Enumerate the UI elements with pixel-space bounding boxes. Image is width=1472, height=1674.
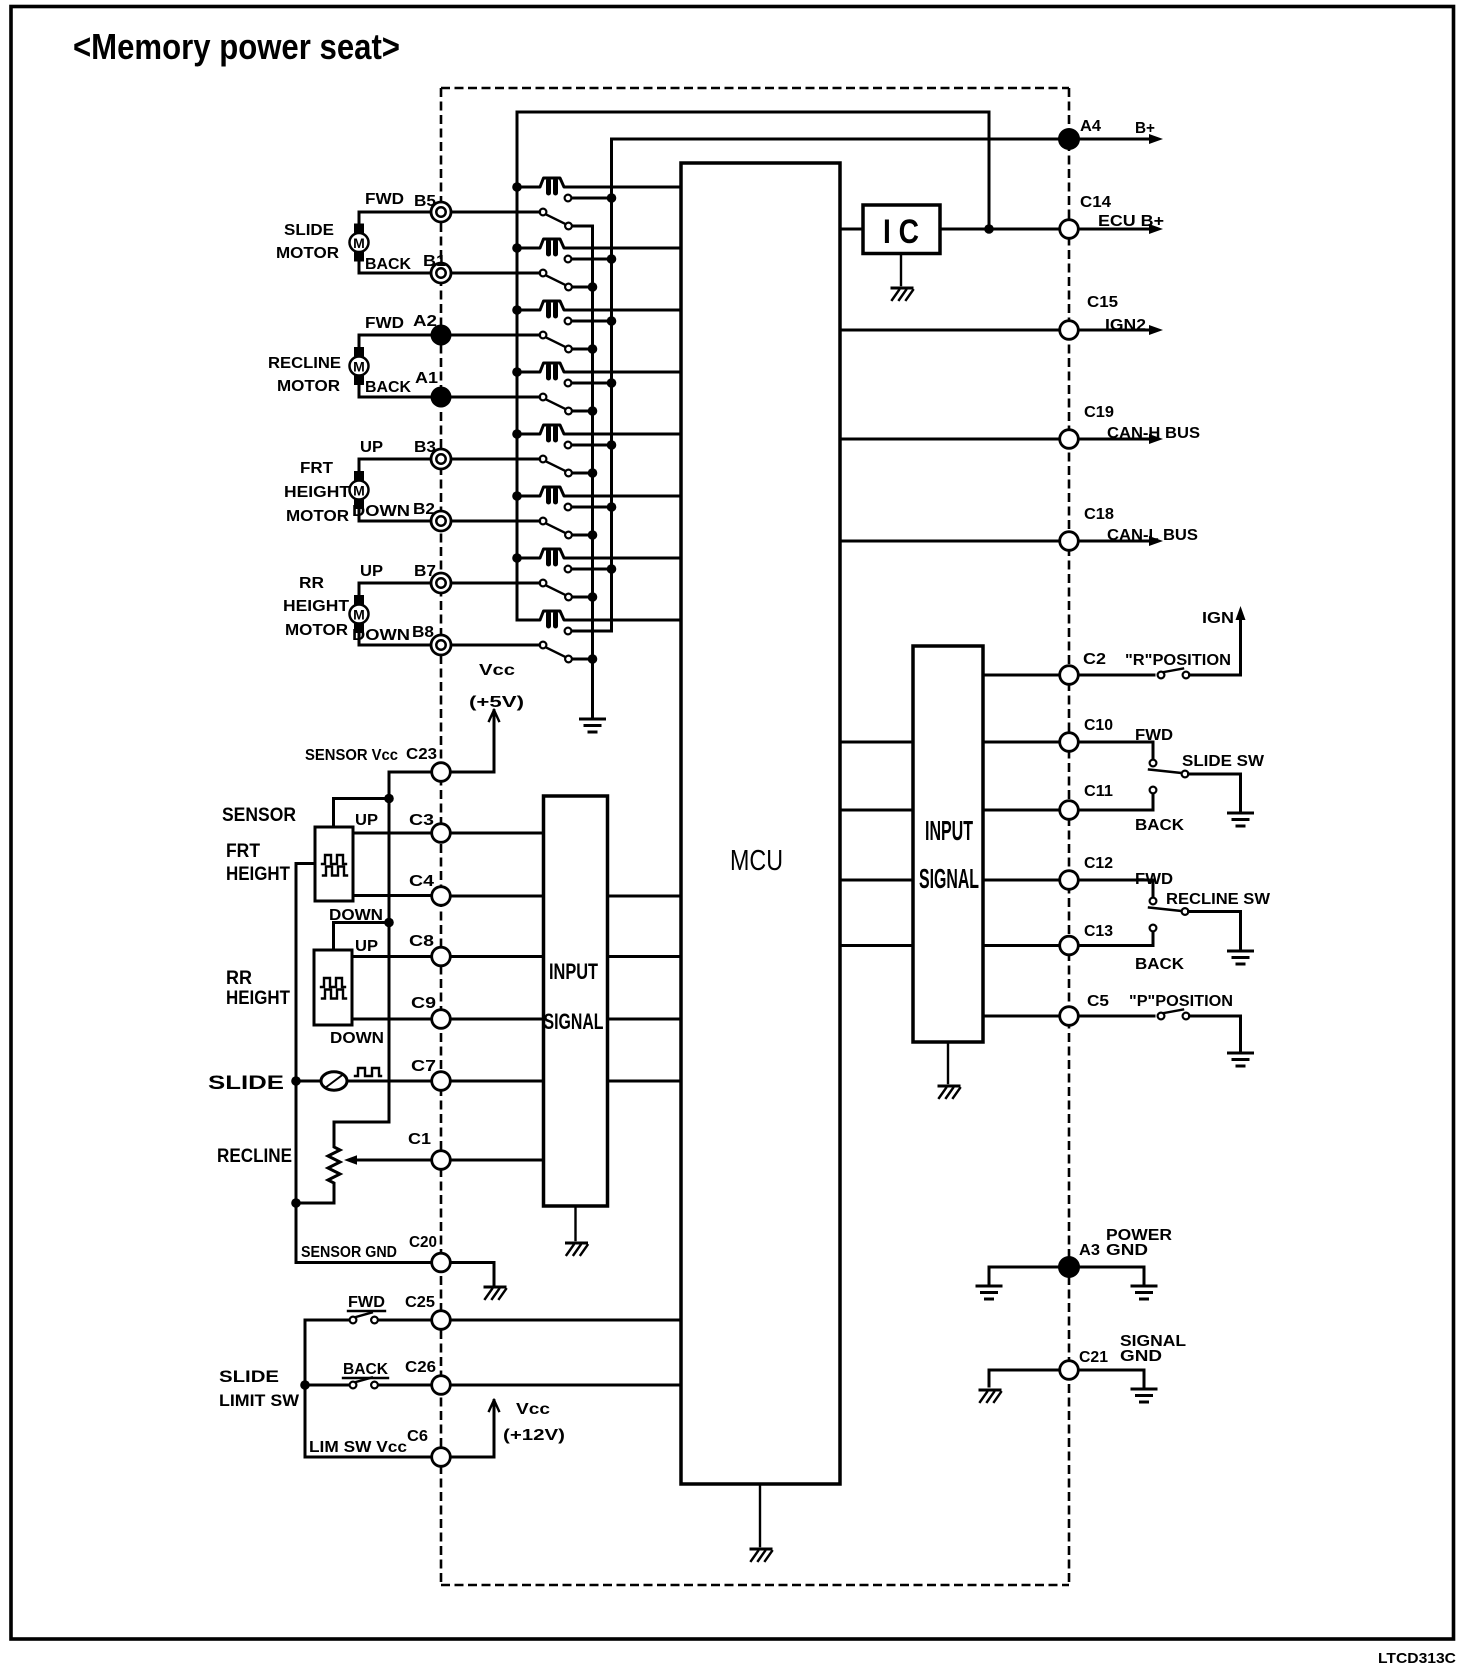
wire R-position to IGN: [1190, 614, 1241, 675]
wire sensor gnd to C20: [296, 1261, 431, 1264]
pin C15 IGN2: [1060, 321, 1079, 340]
relay RY8 coil: [517, 611, 681, 626]
wire A2 pin to relay3 pole: [452, 334, 540, 337]
svg-text:BACK: BACK: [1135, 956, 1185, 973]
svg-text:DOWN: DOWN: [329, 907, 383, 924]
svg-text:C8: C8: [409, 933, 434, 950]
svg-text:B1: B1: [423, 253, 446, 270]
right INPUT SIGNAL block: [913, 646, 983, 1042]
wire sensor ground rail: [295, 864, 298, 1263]
svg-text:BACK: BACK: [365, 256, 412, 273]
pin C11 slide BACK: [1060, 801, 1079, 820]
pin C26: [432, 1376, 451, 1395]
FRT HEIGHT sensor: [315, 827, 353, 901]
pin C14 ECU B+: [1060, 220, 1079, 239]
wire B+ line: [612, 138, 1152, 141]
svg-text:HEIGHT: HEIGHT: [283, 598, 350, 615]
svg-text:INPUT: INPUT: [925, 815, 973, 846]
ground (P-position): [1229, 1053, 1253, 1066]
svg-text:B7: B7: [414, 563, 436, 580]
pin C10 slide FWD: [1060, 733, 1079, 752]
node Vcc branch to RR sensor: [384, 918, 394, 928]
ground (right input block): [939, 1086, 960, 1098]
svg-text:CAN-L BUS: CAN-L BUS: [1107, 527, 1198, 544]
slide limit switch FWD: [305, 1319, 350, 1322]
wire slide sw to ground: [1189, 774, 1241, 811]
svg-text:C26: C26: [405, 1359, 436, 1376]
recline potentiometer: [296, 1122, 389, 1203]
relay RY1 coil: [517, 178, 681, 193]
node slide sensor junction: [291, 1076, 301, 1086]
wire relay coil supply bus: [516, 112, 519, 620]
svg-text:C13: C13: [1084, 923, 1113, 940]
pin C8: [432, 947, 451, 966]
relay RY6 contact: [571, 506, 607, 509]
svg-text:<Memory power seat>: <Memory power seat>: [73, 26, 400, 67]
svg-text:RR: RR: [226, 968, 252, 989]
wire C3 to input block: [451, 832, 544, 835]
svg-text:SIGNAL: SIGNAL: [919, 863, 979, 894]
relay RY4 contact: [571, 382, 607, 385]
wire slide sensor to C7: [347, 1080, 431, 1083]
wire input block out row C8 to MCU: [608, 955, 682, 958]
R-position switch: [1079, 674, 1154, 677]
svg-text:C20: C20: [409, 1234, 437, 1251]
svg-text:C18: C18: [1084, 506, 1114, 523]
svg-text:(+12V): (+12V): [503, 1427, 565, 1444]
svg-text:A1: A1: [415, 370, 438, 387]
pin C1: [432, 1151, 451, 1170]
slide switch SW1: [1150, 760, 1157, 767]
wire C23 to Vcc arrow: [451, 711, 494, 772]
relay RY7 coil: [517, 549, 681, 564]
pin C2 R-position: [1060, 666, 1079, 685]
pin C25: [432, 1311, 451, 1330]
arrow B+: [1149, 134, 1163, 144]
ground (C20): [485, 1287, 506, 1299]
wire P-position to ground: [1190, 1016, 1241, 1051]
wire Vcc to RR sensor: [334, 923, 390, 951]
relay RY3 coil: [517, 301, 681, 316]
RR HEIGHT sensor: [314, 950, 352, 1025]
wire C12 to recline sw throw: [1079, 880, 1153, 898]
wire rr height motor UP lead: [359, 583, 431, 596]
svg-text:C1: C1: [408, 1131, 431, 1148]
ground (C21 left): [980, 1390, 1001, 1402]
svg-text:C9: C9: [411, 995, 436, 1012]
svg-text:C7: C7: [411, 1058, 436, 1075]
wire slide motor BACK lead: [359, 261, 431, 273]
svg-text:LIMIT SW: LIMIT SW: [219, 1391, 300, 1410]
svg-text:C23: C23: [406, 746, 437, 763]
wire IC ground stem: [900, 254, 902, 286]
svg-text:Vcc: Vcc: [516, 1401, 550, 1418]
svg-text:"R"POSITION: "R"POSITION: [1125, 652, 1231, 669]
svg-text:MCU: MCU: [730, 845, 783, 877]
pin C4: [432, 887, 451, 906]
pot wiper arrow to C1: [352, 1159, 431, 1162]
P-position switch: [1079, 1015, 1154, 1018]
svg-text:SLIDE SW: SLIDE SW: [1182, 753, 1264, 770]
wire C13 to recline sw throw: [1079, 932, 1153, 946]
wire input block to C13: [983, 944, 1060, 947]
wire MCU to C15: [840, 329, 1060, 332]
relay RY3 contact: [571, 320, 607, 323]
svg-text:FRT: FRT: [226, 841, 260, 862]
pin C9: [432, 1010, 451, 1029]
svg-text:SENSOR Vcc: SENSOR Vcc: [305, 747, 398, 764]
wire C1 to input block: [451, 1159, 544, 1162]
pin B3: [431, 449, 451, 469]
wire RR sensor UP to C8: [352, 955, 431, 958]
svg-text:FWD: FWD: [348, 1294, 385, 1311]
ECU dashed boundary box: [441, 88, 1069, 1585]
svg-text:HEIGHT: HEIGHT: [226, 988, 290, 1009]
wire C8 to input block: [451, 955, 544, 958]
svg-text:C10: C10: [1084, 717, 1113, 734]
svg-text:LIM SW Vcc: LIM SW Vcc: [309, 1439, 407, 1456]
node A3 POWER GND: [1058, 1256, 1080, 1278]
svg-text:MOTOR: MOTOR: [285, 622, 348, 639]
svg-text:(+5V): (+5V): [469, 694, 524, 711]
pin A1: [431, 387, 452, 408]
svg-text:IGN: IGN: [1202, 610, 1234, 627]
svg-text:C4: C4: [409, 873, 434, 890]
pin C21 SIGNAL GND: [1060, 1361, 1079, 1380]
wire C20 to ground: [451, 1263, 494, 1285]
svg-text:BACK: BACK: [1135, 817, 1185, 834]
recline motor M2: [354, 347, 364, 357]
relay RY5 coil: [517, 425, 681, 440]
svg-text:C2: C2: [1083, 651, 1106, 668]
wire slide sensor left lead: [296, 1080, 321, 1083]
wire B1 pin to relay2 pole: [452, 272, 540, 275]
pin B2: [431, 511, 451, 531]
node junction: [984, 224, 994, 234]
wire frt height motor UP lead: [359, 459, 431, 472]
wire C26 to MCU: [451, 1384, 681, 1387]
wire left input block ground stem: [574, 1206, 576, 1240]
svg-text:A4: A4: [1080, 118, 1101, 135]
pin C20 SENSOR GND: [432, 1253, 451, 1272]
wire MCU to input block row C12: [840, 879, 913, 882]
node slide limit sw common: [300, 1380, 310, 1390]
wire MCU to input block row C13: [840, 944, 913, 947]
wire A1 pin to relay4 pole: [452, 396, 540, 399]
left INPUT SIGNAL block: [544, 796, 608, 1206]
wire coil-supply top line: [517, 112, 989, 229]
relay RY5 contact: [571, 444, 607, 447]
wire recline motor BACK lead: [359, 385, 431, 398]
wire FRT sensor UP to C3: [353, 832, 431, 835]
svg-text:UP: UP: [360, 439, 383, 456]
svg-text:B5: B5: [414, 193, 436, 210]
node pot ground junction: [291, 1198, 301, 1208]
svg-text:FWD: FWD: [365, 315, 404, 332]
node Vcc branch to FRT sensor: [384, 794, 394, 804]
svg-text:DOWN: DOWN: [330, 1030, 384, 1047]
ground (IC): [892, 288, 913, 300]
svg-text:A3: A3: [1079, 1242, 1100, 1259]
svg-text:SENSOR: SENSOR: [222, 805, 296, 826]
pin A2: [431, 325, 452, 346]
svg-text:SIGNAL: SIGNAL: [544, 1009, 604, 1034]
svg-text:B3: B3: [414, 439, 436, 456]
wire input block to C2: [983, 674, 1060, 677]
ground (A3 left): [977, 1286, 1001, 1299]
svg-text:I C: I C: [883, 213, 919, 251]
svg-text:RECLINE: RECLINE: [268, 355, 341, 372]
pin C6 LIM SW Vcc: [432, 1448, 451, 1467]
wire MCU to C18: [840, 540, 1060, 543]
wire input block to C10: [983, 741, 1060, 744]
relay RY4 coil: [517, 363, 681, 378]
pin B5: [431, 202, 451, 222]
wire C4 to input block: [451, 895, 544, 898]
wire C7 to input block: [451, 1080, 544, 1083]
wire FRT sensor DOWN to C4: [353, 894, 431, 897]
svg-text:M: M: [353, 607, 365, 623]
wire C6 to Vcc +12V arrow: [451, 1401, 494, 1457]
wire C9 to input block: [451, 1018, 544, 1021]
wire input block to C11: [983, 809, 1060, 812]
wire B8 pin to relay8 pole: [452, 644, 540, 647]
wire relay contact B+ bus: [610, 139, 613, 631]
svg-text:C5: C5: [1087, 993, 1109, 1010]
wire B7 pin to relay7 pole: [452, 582, 540, 585]
svg-text:BACK: BACK: [365, 379, 412, 396]
ground (recline sw): [1229, 951, 1253, 964]
wire B5 pin to relay1 pole: [452, 211, 540, 214]
svg-text:RECLINE: RECLINE: [217, 1146, 292, 1167]
wire C10 to slide sw throw: [1079, 742, 1153, 760]
wire input block to C12: [983, 879, 1060, 882]
svg-text:DOWN: DOWN: [352, 503, 410, 520]
wire RR sensor DOWN to C9: [352, 1018, 431, 1021]
wire C25 to MCU: [451, 1319, 681, 1322]
slide motor M1: [354, 224, 364, 234]
wire C21 right ground: [1079, 1370, 1144, 1387]
wire recline sw to ground: [1189, 912, 1241, 950]
svg-text:IGN2: IGN2: [1105, 317, 1146, 334]
ground (C21 right): [1132, 1389, 1156, 1402]
svg-text:C15: C15: [1087, 294, 1118, 311]
arrow IGN: [1236, 606, 1246, 620]
svg-text:RR: RR: [299, 575, 324, 592]
wire input block to C5: [983, 1015, 1060, 1018]
pin C19 CAN-H BUS: [1060, 430, 1079, 449]
wire MCU to input block row C11: [840, 809, 913, 812]
wire frt height motor DOWN lead: [359, 509, 431, 522]
wire C11 to slide sw throw: [1079, 794, 1153, 811]
svg-text:"P"POSITION: "P"POSITION: [1129, 993, 1233, 1010]
slide limit switch BACK: [305, 1384, 350, 1387]
svg-text:MOTOR: MOTOR: [277, 378, 340, 395]
svg-text:DOWN: DOWN: [352, 627, 410, 644]
wire B2 pin to relay6 pole: [452, 520, 540, 523]
wire MCU to input block row C10: [840, 741, 913, 744]
wire A3 left ground: [989, 1267, 1058, 1284]
pin C3: [432, 824, 451, 843]
slide position sensor: [321, 1072, 347, 1090]
relay RY2 coil: [517, 239, 681, 254]
relay RY1 contact: [571, 197, 607, 200]
pin C23 SENSOR Vcc: [432, 763, 451, 782]
svg-text:GND: GND: [1120, 1348, 1162, 1365]
svg-text:MOTOR: MOTOR: [286, 508, 349, 525]
wire rr height motor DOWN lead: [359, 633, 431, 646]
wire sensor Vcc rail: [389, 772, 431, 1122]
svg-text:GND: GND: [1106, 1242, 1148, 1259]
pin B1: [431, 263, 451, 283]
ground (MCU): [751, 1549, 772, 1561]
ground (left input block): [567, 1243, 588, 1255]
wire B3 pin to relay5 pole: [452, 458, 540, 461]
svg-text:C19: C19: [1084, 404, 1114, 421]
relay RY2 contact: [571, 258, 607, 261]
svg-text:B2: B2: [413, 501, 435, 518]
svg-text:INPUT: INPUT: [549, 959, 598, 984]
recline switch SW2: [1150, 898, 1157, 905]
wire MCU bottom ground stem: [759, 1484, 761, 1546]
ground (slide sw): [1229, 813, 1253, 826]
svg-text:C11: C11: [1084, 783, 1113, 800]
svg-text:ECU B+: ECU B+: [1098, 213, 1164, 230]
svg-text:SLIDE: SLIDE: [208, 1073, 284, 1094]
svg-text:C12: C12: [1084, 855, 1113, 872]
Vcc +5V arrow: [489, 710, 499, 721]
relay RY6 coil: [517, 487, 681, 502]
svg-text:RECLINE SW: RECLINE SW: [1166, 891, 1270, 908]
svg-text:M: M: [353, 359, 365, 375]
wire input block out row C9 to MCU: [608, 1018, 682, 1021]
node A4 B+: [1058, 128, 1080, 150]
MCU U1: [681, 163, 840, 1484]
wire A3 right ground: [1080, 1267, 1144, 1284]
svg-text:FRT: FRT: [300, 460, 334, 477]
relay RY7 contact: [571, 568, 607, 571]
wire Vcc to FRT sensor: [334, 799, 390, 828]
svg-text:M: M: [353, 235, 365, 251]
wire FRT sensor ground stub: [296, 862, 315, 865]
svg-text:FWD: FWD: [365, 191, 404, 208]
pin C5 P-position: [1060, 1007, 1079, 1026]
svg-text:SLIDE: SLIDE: [219, 1367, 279, 1386]
svg-text:BACK: BACK: [343, 1361, 389, 1378]
pin C12 recline FWD: [1060, 871, 1079, 890]
wire LIM SW Vcc row: [305, 1456, 431, 1459]
wire MCU to IC: [840, 228, 863, 231]
svg-text:A2: A2: [413, 313, 437, 330]
svg-text:C25: C25: [405, 1294, 435, 1311]
svg-text:C6: C6: [407, 1428, 428, 1445]
wire recline motor FWD lead: [359, 335, 431, 348]
svg-text:C14: C14: [1080, 194, 1111, 211]
svg-text:B+: B+: [1135, 120, 1155, 137]
svg-text:SLIDE: SLIDE: [284, 222, 334, 239]
svg-text:LTCD313C: LTCD313C: [1378, 1650, 1456, 1667]
ground (relay bus): [581, 719, 605, 732]
relay RY8 contact: [571, 630, 611, 633]
pin B7: [431, 573, 451, 593]
svg-text:HEIGHT: HEIGHT: [284, 484, 351, 501]
pin C18 CAN-L BUS: [1060, 532, 1079, 551]
svg-text:Vcc: Vcc: [479, 662, 515, 679]
IC U2: [863, 205, 940, 254]
svg-text:B8: B8: [412, 624, 434, 641]
svg-text:CAN-H BUS: CAN-H BUS: [1107, 425, 1200, 442]
wire right input block ground stem: [947, 1042, 949, 1083]
rear height motor M4: [354, 595, 364, 605]
svg-text:C3: C3: [409, 812, 434, 829]
wire input block out row C7 to MCU: [608, 1080, 682, 1083]
pulse waveform glyph: [355, 1068, 381, 1076]
wire input block out row C4 to MCU: [608, 895, 682, 898]
pin C7: [432, 1072, 451, 1091]
svg-text:MOTOR: MOTOR: [276, 245, 339, 262]
wire slide motor FWD lead: [359, 212, 431, 224]
wire slide limit sw common rail: [304, 1320, 307, 1457]
Vcc +12V arrow: [489, 1400, 499, 1411]
wire IC output to C14: [940, 228, 1060, 231]
wire MCU to C19: [840, 438, 1060, 441]
wire relay common ground bus: [591, 226, 594, 717]
svg-text:UP: UP: [355, 812, 378, 829]
pin B8: [431, 635, 451, 655]
svg-text:UP: UP: [355, 938, 378, 955]
ground (A3 right): [1132, 1286, 1156, 1299]
svg-text:M: M: [353, 483, 365, 499]
pin C13 recline BACK: [1060, 936, 1079, 955]
svg-text:C21: C21: [1079, 1349, 1108, 1366]
wire C21 left ground: [989, 1370, 1059, 1386]
svg-text:HEIGHT: HEIGHT: [226, 864, 290, 885]
svg-text:UP: UP: [360, 563, 383, 580]
front height motor M3: [354, 471, 364, 481]
svg-text:SENSOR GND: SENSOR GND: [301, 1244, 397, 1261]
